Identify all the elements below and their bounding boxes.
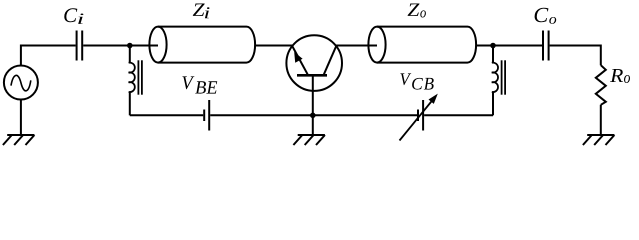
emitter arrow — [294, 52, 302, 63]
ground GND3 — [583, 135, 615, 145]
node B junction dot — [490, 43, 496, 49]
transistor base lead — [312, 75, 314, 135]
VCB arrow head — [429, 94, 438, 104]
transmission line Zi — [149, 27, 255, 63]
bottom rail left segment — [130, 114, 203, 116]
wire Ro to ground — [600, 105, 602, 135]
ground GND2 — [293, 135, 325, 145]
label Ci — [64, 8, 77, 22]
junction dot base/rail — [310, 113, 316, 119]
wire source to ground — [20, 100, 22, 136]
label VCB — [400, 73, 411, 85]
ground GND1 — [3, 135, 35, 145]
inductor L1 core bars — [137, 60, 139, 94]
wire collector to Zo — [336, 45, 377, 47]
inductor L1 (RF choke) coil — [129, 63, 135, 92]
inductor L2 core bars — [501, 60, 503, 94]
bottom rail right segment — [424, 114, 493, 116]
battery VCB short plate — [417, 110, 419, 122]
resistor Ro zigzag — [596, 65, 606, 105]
transistor collector — [324, 46, 337, 75]
wire node B down to choke — [492, 46, 494, 63]
sine wave — [11, 75, 31, 91]
AC source V1 — [4, 66, 38, 100]
wire choke to bottom rail — [129, 92, 131, 115]
wire Co to Ro — [550, 46, 601, 66]
capacitor Co plates — [542, 31, 544, 61]
VCB variable arrow — [400, 100, 434, 141]
battery VBE short plate — [203, 110, 205, 122]
wire top rail from source to Ci — [21, 46, 76, 66]
bottom rail mid segment — [210, 114, 417, 116]
label Co — [535, 8, 549, 22]
transistor Q1 circle — [286, 35, 342, 91]
wire choke to bottom rail — [492, 92, 494, 115]
wire Zo to node B — [476, 45, 542, 47]
label Ro — [610, 69, 623, 82]
capacitor Ci plates — [76, 31, 78, 61]
battery VCB long plate — [422, 100, 424, 131]
transmission line Zo — [368, 27, 476, 63]
inductor L2 (RF choke) coil — [492, 63, 498, 92]
wire node A down to choke — [129, 46, 131, 63]
wire Zi to transistor — [255, 45, 292, 47]
wire Ci to Zi — [83, 45, 158, 47]
transistor emitter — [292, 46, 308, 75]
label VBE — [182, 76, 194, 89]
node A junction dot — [127, 43, 133, 49]
label Zi — [193, 3, 205, 15]
battery VBE long plate — [208, 100, 210, 131]
label Zo — [408, 3, 420, 15]
transistor base bar — [297, 74, 327, 77]
